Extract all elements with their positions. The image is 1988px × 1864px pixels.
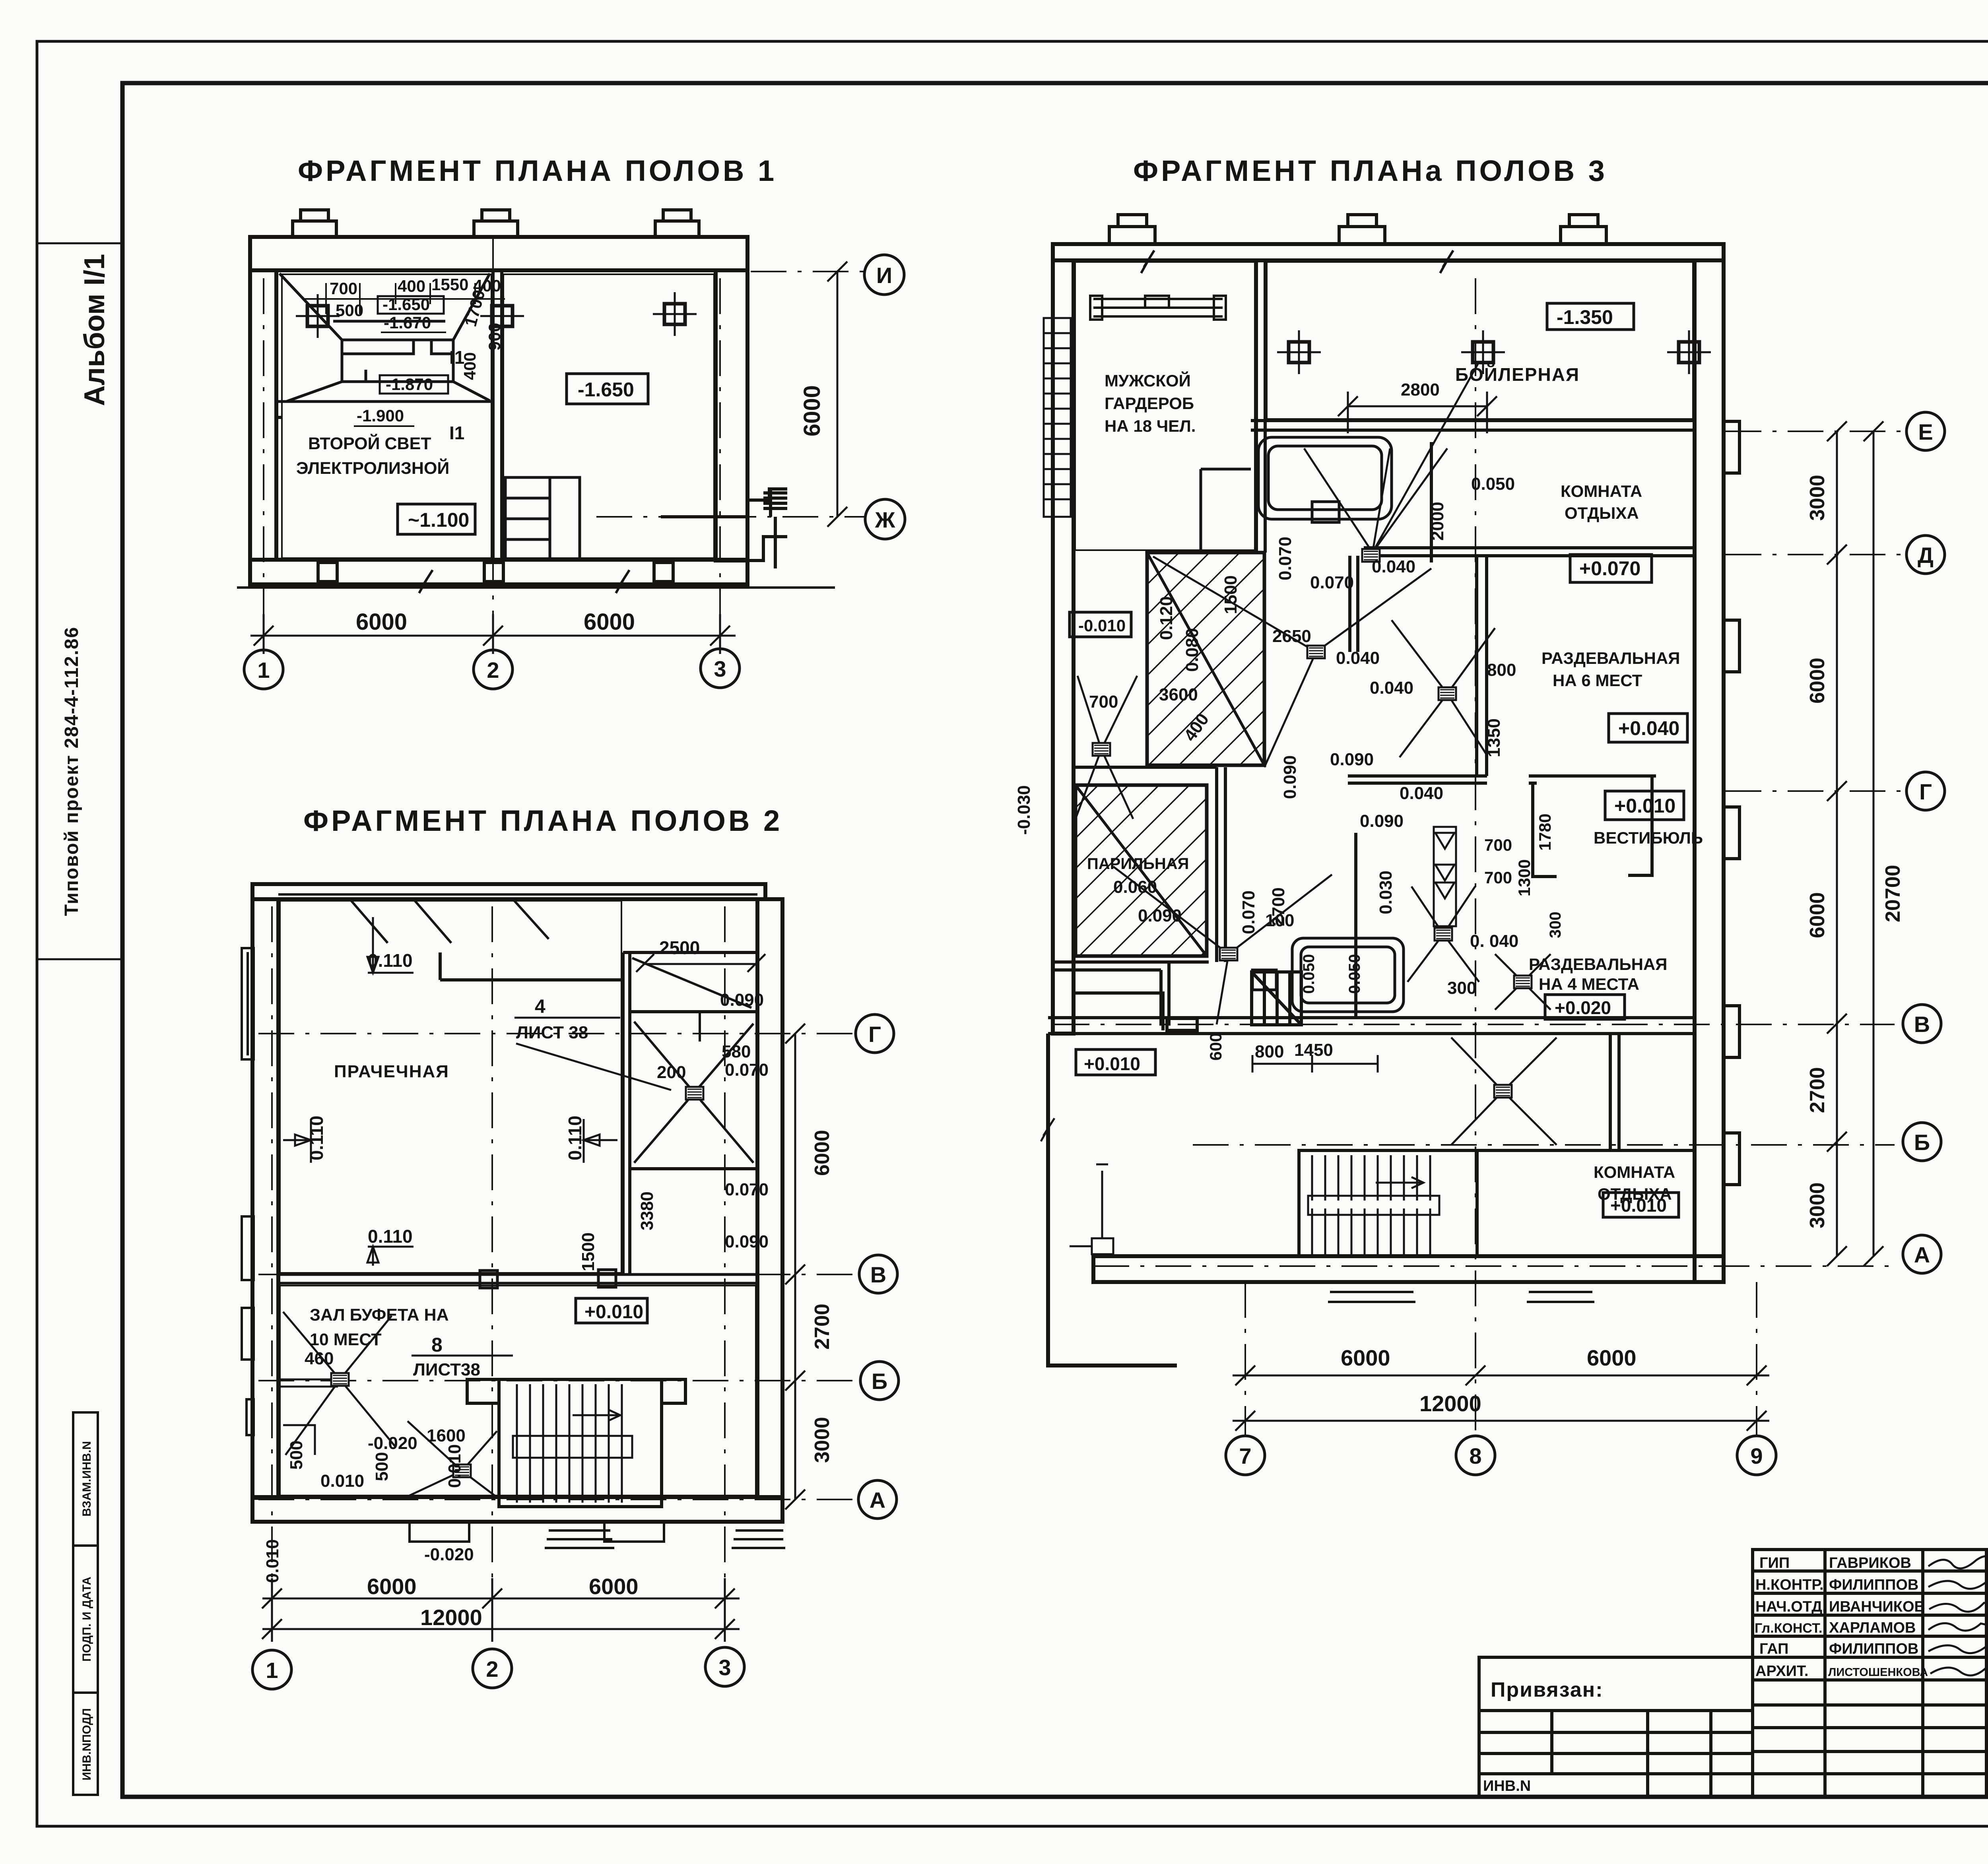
svg-text:400: 400 [398, 277, 425, 295]
svg-text:800: 800 [1255, 1042, 1284, 1061]
svg-text:580: 580 [722, 1042, 751, 1061]
svg-text:1300: 1300 [1515, 859, 1534, 896]
svg-text:700: 700 [1484, 868, 1512, 887]
svg-text:+0.020: +0.020 [1555, 997, 1611, 1018]
svg-text:Е: Е [1918, 419, 1933, 444]
svg-text:ЗАЛ БУФЕТА НА: ЗАЛ БУФЕТА НА [310, 1305, 449, 1325]
svg-text:-0.020: -0.020 [424, 1545, 474, 1564]
svg-text:0.040: 0.040 [1400, 784, 1443, 803]
svg-text:ГАВРИКОВ: ГАВРИКОВ [1829, 1555, 1911, 1571]
svg-text:1600: 1600 [427, 1426, 466, 1445]
svg-text:-1.650: -1.650 [382, 295, 430, 314]
svg-text:НА 6 МЕСТ: НА 6 МЕСТ [1553, 671, 1642, 690]
svg-text:3600: 3600 [1159, 685, 1198, 704]
svg-text:6000: 6000 [1806, 892, 1829, 938]
svg-text:АРХИТ.: АРХИТ. [1755, 1663, 1808, 1680]
svg-text:-1.870: -1.870 [386, 375, 433, 394]
svg-text:0.040: 0.040 [1372, 557, 1415, 576]
svg-text:РАЗДЕВАЛЬНАЯ: РАЗДЕВАЛЬНАЯ [1541, 649, 1680, 667]
svg-text:ПАРИЛЬНАЯ: ПАРИЛЬНАЯ [1087, 855, 1189, 873]
svg-text:2650: 2650 [1272, 627, 1311, 646]
svg-text:6000: 6000 [367, 1574, 417, 1599]
svg-text:Б: Б [872, 1369, 887, 1394]
svg-text:КОМНАТА: КОМНАТА [1561, 482, 1642, 500]
svg-text:ХАРЛАМОВ: ХАРЛАМОВ [1829, 1620, 1916, 1636]
svg-text:ПОДП. И ДАТА: ПОДП. И ДАТА [80, 1577, 93, 1662]
svg-text:400: 400 [460, 352, 479, 380]
svg-text:ОТДЫХА: ОТДЫХА [1565, 504, 1639, 522]
svg-text:ГИП: ГИП [1759, 1555, 1790, 1571]
svg-text:0.070: 0.070 [1310, 573, 1354, 592]
svg-text:ЛИСТ 38: ЛИСТ 38 [516, 1023, 588, 1042]
svg-text:0.090: 0.090 [1330, 750, 1374, 769]
svg-text:2700: 2700 [1806, 1067, 1829, 1113]
svg-text:3000: 3000 [1806, 475, 1829, 521]
svg-text:ИНВ.N: ИНВ.N [1483, 1778, 1531, 1794]
svg-text:0.110: 0.110 [368, 1226, 413, 1247]
svg-text:0.110: 0.110 [565, 1115, 585, 1160]
svg-text:ПРАЧЕЧНАЯ: ПРАЧЕЧНАЯ [334, 1062, 449, 1081]
svg-text:ГАРДЕРОБ: ГАРДЕРОБ [1105, 394, 1194, 413]
svg-text:В: В [1914, 1012, 1930, 1037]
svg-text:0.090: 0.090 [1360, 811, 1404, 831]
svg-text:ФИЛИППОВ: ФИЛИППОВ [1829, 1577, 1918, 1593]
svg-text:А: А [870, 1488, 885, 1513]
svg-text:ЛИСТОШЕНКОВА: ЛИСТОШЕНКОВА [1828, 1666, 1928, 1679]
svg-text:1780: 1780 [1536, 814, 1554, 851]
svg-text:0. 040: 0. 040 [1470, 931, 1518, 951]
svg-text:Г: Г [868, 1022, 881, 1047]
svg-text:500: 500 [287, 1441, 306, 1470]
svg-text:ИНВ.NПОДЛ: ИНВ.NПОДЛ [80, 1708, 93, 1781]
svg-text:300: 300 [1547, 912, 1564, 938]
svg-text:6000: 6000 [589, 1574, 639, 1599]
svg-text:2000: 2000 [1428, 502, 1447, 541]
svg-text:20700: 20700 [1881, 865, 1905, 922]
svg-text:0.010: 0.010 [320, 1471, 364, 1491]
svg-text:12000: 12000 [420, 1605, 482, 1630]
svg-text:1500: 1500 [1221, 575, 1241, 614]
svg-text:Г: Г [1919, 779, 1932, 804]
svg-text:+0.010: +0.010 [1084, 1053, 1140, 1074]
svg-text:6000: 6000 [584, 609, 635, 635]
svg-text:-1.350: -1.350 [1557, 306, 1613, 328]
svg-text:700: 700 [1484, 836, 1512, 854]
svg-text:0.050: 0.050 [1300, 954, 1318, 994]
svg-text:0.010: 0.010 [263, 1539, 282, 1583]
svg-text:+0.070: +0.070 [1579, 557, 1640, 580]
svg-text:ИВАНЧИКОВ: ИВАНЧИКОВ [1829, 1598, 1925, 1615]
svg-text:0.070: 0.070 [725, 1060, 769, 1080]
svg-text:В: В [870, 1262, 886, 1287]
svg-text:460: 460 [305, 1349, 334, 1368]
svg-text:2: 2 [487, 658, 499, 683]
svg-text:0.120: 0.120 [1157, 596, 1176, 640]
svg-text:-1.650: -1.650 [578, 378, 634, 401]
svg-text:6000: 6000 [1806, 658, 1829, 704]
svg-text:Н.КОНТР.: Н.КОНТР. [1755, 1577, 1824, 1593]
svg-text:1450: 1450 [1294, 1040, 1333, 1060]
svg-text:0.070: 0.070 [1239, 890, 1258, 934]
svg-text:ЭЛЕКТРОЛИЗНОЙ: ЭЛЕКТРОЛИЗНОЙ [296, 458, 449, 478]
svg-text:НАЧ.ОТД.: НАЧ.ОТД. [1755, 1598, 1827, 1615]
svg-text:Ж: Ж [875, 507, 895, 532]
svg-text:2800: 2800 [1401, 380, 1440, 400]
svg-text:1550: 1550 [431, 275, 468, 294]
svg-text:6000: 6000 [811, 1130, 834, 1176]
svg-text:А: А [1914, 1242, 1930, 1267]
svg-text:200: 200 [657, 1063, 686, 1082]
svg-text:БОЙЛЕРНАЯ: БОЙЛЕРНАЯ [1455, 364, 1580, 385]
svg-text:I1: I1 [449, 423, 464, 443]
svg-text:ЛИСТ38: ЛИСТ38 [413, 1360, 480, 1379]
svg-text:600: 600 [1206, 1033, 1225, 1061]
svg-text:Типовой проект 284-4-112.86: Типовой проект 284-4-112.86 [61, 627, 82, 916]
svg-text:6000: 6000 [1587, 1345, 1637, 1370]
svg-text:700: 700 [330, 279, 357, 298]
svg-text:1: 1 [257, 658, 270, 683]
svg-text:3000: 3000 [811, 1417, 834, 1463]
svg-text:1500: 1500 [579, 1232, 598, 1271]
svg-text:7: 7 [1239, 1443, 1251, 1468]
svg-text:300: 300 [1447, 978, 1476, 998]
svg-text:~1.100: ~1.100 [408, 509, 469, 531]
svg-text:0.050: 0.050 [1346, 954, 1363, 994]
svg-text:РАЗДЕВАЛЬНАЯ: РАЗДЕВАЛЬНАЯ [1529, 955, 1668, 974]
svg-text:3380: 3380 [637, 1191, 657, 1230]
svg-text:Б: Б [1914, 1130, 1930, 1155]
svg-text:И: И [876, 263, 892, 288]
svg-text:-1.670: -1.670 [384, 313, 431, 332]
svg-text:ГАП: ГАП [1759, 1641, 1788, 1657]
svg-text:ВЗАМ.ИНВ.N: ВЗАМ.ИНВ.N [80, 1441, 93, 1517]
svg-text:КОМНАТА: КОМНАТА [1594, 1163, 1675, 1181]
svg-text:0.010: 0.010 [445, 1444, 464, 1488]
svg-text:0.060: 0.060 [1113, 877, 1157, 897]
svg-text:-0.020: -0.020 [368, 1433, 417, 1453]
svg-text:2500: 2500 [659, 937, 700, 958]
svg-text:6000: 6000 [1341, 1345, 1390, 1370]
svg-text:0.110: 0.110 [306, 1115, 327, 1160]
svg-text:Гл.КОНСТ.: Гл.КОНСТ. [1755, 1621, 1822, 1636]
svg-text:0.090: 0.090 [720, 990, 764, 1010]
svg-text:+0.010: +0.010 [1614, 795, 1675, 817]
svg-text:800: 800 [1487, 660, 1516, 680]
svg-text:МУЖСКОЙ: МУЖСКОЙ [1105, 371, 1191, 390]
svg-text:0.070: 0.070 [1276, 537, 1295, 580]
svg-text:1: 1 [266, 1658, 278, 1683]
svg-text:900: 900 [485, 323, 504, 351]
svg-text:0.090: 0.090 [1280, 755, 1300, 799]
svg-text:ФРАГМЕНТ ПЛАНА ПОЛОВ 1: ФРАГМЕНТ ПЛАНА ПОЛОВ 1 [298, 154, 777, 187]
svg-text:2700: 2700 [811, 1303, 834, 1350]
svg-text:0.030: 0.030 [1376, 871, 1396, 914]
svg-text:700: 700 [1089, 692, 1118, 712]
svg-text:ФРАГМЕНТ ПЛАНа ПОЛОВ 3: ФРАГМЕНТ ПЛАНа ПОЛОВ 3 [1133, 154, 1607, 187]
svg-text:ВТОРОЙ СВЕТ: ВТОРОЙ СВЕТ [308, 434, 431, 453]
svg-text:ОТДЫХА: ОТДЫХА [1598, 1185, 1672, 1203]
svg-text:10 МЕСТ: 10 МЕСТ [310, 1330, 382, 1349]
svg-text:8: 8 [1469, 1443, 1481, 1468]
svg-text:ФРАГМЕНТ ПЛАНА ПОЛОВ 2: ФРАГМЕНТ ПЛАНА ПОЛОВ 2 [303, 804, 782, 837]
svg-text:2: 2 [486, 1656, 498, 1682]
svg-text:НА 18 ЧЕЛ.: НА 18 ЧЕЛ. [1105, 417, 1196, 435]
svg-text:Привязан:: Привязан: [1491, 1678, 1604, 1701]
svg-text:-1.900: -1.900 [357, 406, 404, 425]
svg-text:4: 4 [535, 996, 546, 1017]
svg-text:12000: 12000 [1419, 1391, 1481, 1416]
svg-text:0.040: 0.040 [1336, 648, 1380, 668]
svg-text:500: 500 [372, 1452, 392, 1481]
svg-text:0.090: 0.090 [1138, 906, 1182, 925]
svg-text:+0.010: +0.010 [584, 1302, 643, 1323]
svg-text:0.050: 0.050 [1471, 474, 1515, 494]
svg-text:3: 3 [714, 656, 726, 681]
svg-text:6000: 6000 [799, 385, 825, 436]
svg-text:НА 4 МЕСТА: НА 4 МЕСТА [1539, 975, 1639, 993]
svg-text:+0.040: +0.040 [1618, 717, 1679, 739]
svg-text:0.090: 0.090 [725, 1232, 769, 1251]
svg-text:0.040: 0.040 [1370, 678, 1413, 698]
svg-text:ВЕСТИБЮЛЬ: ВЕСТИБЮЛЬ [1594, 828, 1703, 847]
svg-text:ФИЛИППОВ: ФИЛИППОВ [1829, 1641, 1918, 1657]
svg-text:8: 8 [431, 1334, 443, 1356]
svg-text:1350: 1350 [1484, 718, 1504, 757]
svg-text:0.080: 0.080 [1182, 628, 1202, 672]
svg-text:9: 9 [1750, 1443, 1763, 1468]
svg-text:0.070: 0.070 [725, 1180, 769, 1199]
svg-text:-0.030: -0.030 [1014, 785, 1034, 835]
svg-text:3: 3 [718, 1655, 731, 1680]
svg-text:6000: 6000 [356, 609, 407, 635]
svg-text:Д: Д [1918, 543, 1934, 568]
svg-text:2700: 2700 [1269, 887, 1288, 926]
svg-text:3000: 3000 [1806, 1182, 1829, 1228]
svg-text:-0.010: -0.010 [1078, 616, 1126, 635]
svg-text:Альбом I/1: Альбом I/1 [79, 254, 111, 406]
